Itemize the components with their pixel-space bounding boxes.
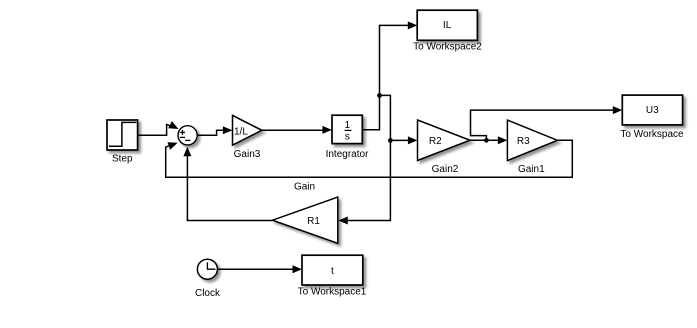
svg-text:1: 1 [345, 120, 351, 131]
wire Integrator output up to IL To Workspace2 [362, 21, 417, 129]
svg-text:Gain2: Gain2 [432, 164, 459, 175]
svg-text:To Workspace: To Workspace [620, 129, 684, 140]
svg-text:Clock: Clock [195, 288, 221, 299]
wire Sum to Gain3 [198, 126, 233, 135]
sink block U3 [622, 95, 682, 125]
gain block R1 (flipped, points left) [273, 197, 338, 243]
wire Step to Sum (+ input) [138, 121, 181, 135]
svg-text:To Workspace1: To Workspace1 [298, 287, 367, 298]
wire R2 output to R3 input [470, 136, 507, 144]
svg-text:R1: R1 [307, 216, 320, 227]
svg-text:IL: IL [443, 20, 452, 31]
svg-text:Gain3: Gain3 [234, 149, 261, 160]
integrator block 1/s [332, 115, 362, 143]
wire branch to R2 input [380, 95, 418, 144]
svg-text:Step: Step [112, 153, 133, 164]
source block Step [107, 120, 138, 150]
svg-text:s: s [345, 131, 350, 142]
wire outer feedback R3 output to Sum (- input), via down-left wrap [166, 139, 573, 177]
svg-text:t: t [331, 266, 334, 277]
wire Clock to t To Workspace1 [218, 265, 302, 273]
sink block t [302, 255, 363, 285]
gain block R2 [418, 120, 471, 161]
svg-text:U3: U3 [646, 105, 659, 116]
wire R1 output to Sum bottom (- input) [183, 147, 272, 221]
clock block [197, 259, 217, 279]
wire branch down to R1 input (crosses feedback line) [338, 140, 390, 224]
sum block (+ - -) [178, 126, 197, 145]
gain block R3 [507, 120, 557, 161]
junction node between R2 and R3 [484, 138, 489, 143]
junction node at R2 input branch [388, 138, 393, 143]
svg-text:To Workspace2: To Workspace2 [413, 42, 482, 53]
gain block Gain3 (1/L) [233, 115, 262, 145]
svg-text:R2: R2 [429, 136, 442, 147]
svg-text:R3: R3 [517, 136, 530, 147]
sink block IL [417, 10, 477, 40]
svg-text:Integrator: Integrator [326, 149, 369, 160]
junction node on IL riser [377, 93, 382, 98]
svg-text:Gain: Gain [294, 182, 315, 193]
svg-text:1/L: 1/L [234, 126, 248, 137]
svg-text:Gain1: Gain1 [518, 164, 545, 175]
wire Gain3 to Integrator [262, 126, 332, 134]
wire branch from R2 output up to U3 To Workspace [471, 106, 623, 140]
